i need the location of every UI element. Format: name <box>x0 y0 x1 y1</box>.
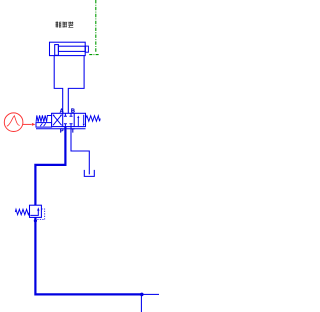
wire: thin line to right edge <box>143 293 159 295</box>
left position: crossed arrows <box>53 115 62 126</box>
svg-text:T: T <box>71 129 75 135</box>
cylinder rod end cap <box>85 46 88 52</box>
relief valve spring <box>15 209 29 214</box>
right position: parallel arrows <box>77 117 79 126</box>
svg-text:P: P <box>60 129 64 135</box>
wire: thin line to bottom edge <box>140 296 142 312</box>
pressure gauge / signal source (red circle with waveform) <box>4 113 23 132</box>
cylinder piston <box>55 45 59 56</box>
svg-text:A: A <box>60 109 64 115</box>
green datum dash-dot line (vertical) <box>95 0 97 53</box>
red arrowhead <box>32 123 36 126</box>
junction dot below relief valve <box>34 219 37 222</box>
valve body: 3-position 4-way directional valve U1 <box>52 113 86 126</box>
svg-text:B: B <box>71 109 75 115</box>
valve right spring <box>86 116 101 122</box>
label 副油缸 (cylinder name text) <box>56 22 74 28</box>
relief valve internal flow arrow <box>30 210 38 215</box>
valve baseplate underline <box>36 128 86 130</box>
red signal line to solenoid <box>23 123 32 125</box>
green datum dash-dot line (horizontal tick) <box>89 54 100 56</box>
main pressure line (thick): relief valve to bottom corner and right <box>35 217 141 294</box>
main pressure line (thick): valve P down-left-down to relief valve <box>35 127 65 206</box>
wire A: cylinder cap-end leg to valve port A <box>54 56 63 114</box>
tank symbol <box>84 170 94 177</box>
solenoid slashes <box>40 123 46 126</box>
junction dot bottom right <box>140 293 144 297</box>
cylinder rod <box>58 46 85 51</box>
wire T: valve port T to tank <box>71 127 89 175</box>
center position: blocked ports (T stubs) <box>64 113 73 116</box>
wire B: cylinder rod-end leg to valve port B <box>68 56 84 114</box>
cylinder body (副油缸) <box>50 42 86 55</box>
relief valve V1 body <box>30 205 42 217</box>
proportional solenoid box <box>36 123 52 128</box>
relief valve pilot line (dashed) <box>36 209 44 220</box>
valve left spring <box>36 115 52 121</box>
